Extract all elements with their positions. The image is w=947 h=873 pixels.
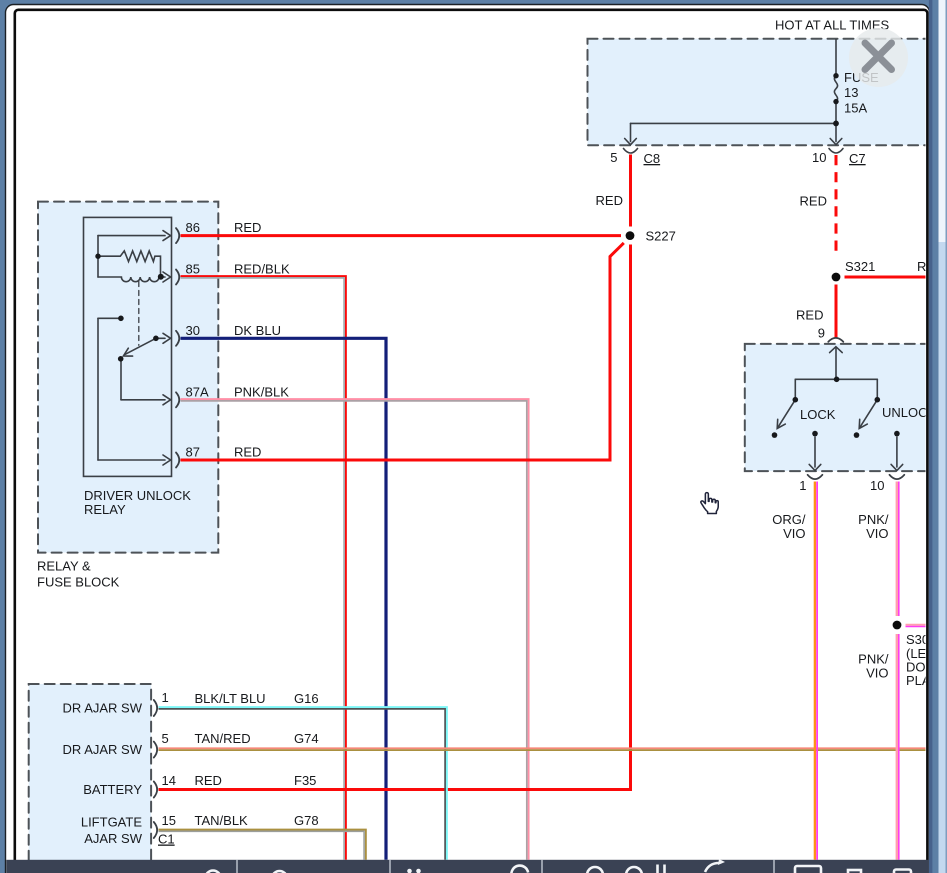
svg-text:85: 85 — [186, 262, 200, 277]
svg-text:DR AJAR SW: DR AJAR SW — [63, 742, 143, 757]
svg-text:RED: RED — [596, 193, 623, 208]
svg-text:30: 30 — [186, 323, 200, 338]
svg-text:BATTERY: BATTERY — [83, 782, 142, 797]
svg-text:BLK/LT BLU: BLK/LT BLU — [195, 691, 266, 706]
svg-text:15: 15 — [162, 813, 176, 828]
svg-text:86: 86 — [186, 220, 200, 235]
svg-text:RED: RED — [195, 773, 222, 788]
svg-text:C8: C8 — [644, 151, 661, 166]
svg-text:DRIVER UNLOCK: DRIVER UNLOCK — [84, 488, 191, 503]
svg-text:LIFTGATE: LIFTGATE — [81, 815, 142, 830]
svg-text:PNK/: PNK/ — [858, 512, 889, 527]
svg-text:1: 1 — [162, 690, 169, 705]
svg-text:DK BLU: DK BLU — [234, 323, 281, 338]
svg-text:VIO: VIO — [783, 526, 805, 541]
svg-text:RED: RED — [800, 194, 827, 209]
svg-text:RED: RED — [234, 220, 261, 235]
svg-text:1: 1 — [799, 478, 806, 493]
svg-text:LOCK: LOCK — [800, 407, 836, 422]
svg-text:G16: G16 — [294, 691, 319, 706]
svg-text:G74: G74 — [294, 731, 319, 746]
svg-text:87A: 87A — [186, 385, 209, 400]
svg-text:DR AJAR SW: DR AJAR SW — [63, 701, 143, 716]
svg-text:5: 5 — [162, 731, 169, 746]
svg-text:VIO: VIO — [866, 666, 888, 681]
svg-text:AJAR SW: AJAR SW — [84, 831, 143, 846]
svg-text:FUSE BLOCK: FUSE BLOCK — [37, 575, 120, 590]
svg-text:C1: C1 — [158, 832, 175, 847]
svg-text:ORG/: ORG/ — [772, 512, 806, 527]
svg-text:RED: RED — [234, 445, 261, 460]
svg-text:15A: 15A — [844, 101, 867, 116]
svg-text:S321: S321 — [845, 259, 875, 274]
svg-text:5: 5 — [610, 150, 617, 165]
svg-text:14: 14 — [162, 773, 176, 788]
svg-text:10: 10 — [812, 150, 826, 165]
svg-text:13: 13 — [844, 85, 858, 100]
svg-text:9: 9 — [818, 326, 825, 341]
svg-text:87: 87 — [186, 445, 200, 460]
svg-text:RED: RED — [796, 308, 823, 323]
svg-text:10: 10 — [870, 478, 884, 493]
svg-text:G78: G78 — [294, 813, 319, 828]
svg-text:RED/BLK: RED/BLK — [234, 262, 290, 277]
svg-text:S227: S227 — [646, 229, 676, 244]
svg-text:F35: F35 — [294, 773, 316, 788]
svg-text:TAN/BLK: TAN/BLK — [195, 813, 249, 828]
svg-text:RELAY: RELAY — [84, 502, 126, 517]
svg-text:RELAY &: RELAY & — [37, 559, 91, 574]
svg-text:C7: C7 — [849, 151, 866, 166]
svg-text:VIO: VIO — [866, 526, 888, 541]
svg-text:TAN/RED: TAN/RED — [195, 731, 251, 746]
svg-text:PNK/BLK: PNK/BLK — [234, 385, 289, 400]
svg-text:PNK/: PNK/ — [858, 652, 889, 667]
